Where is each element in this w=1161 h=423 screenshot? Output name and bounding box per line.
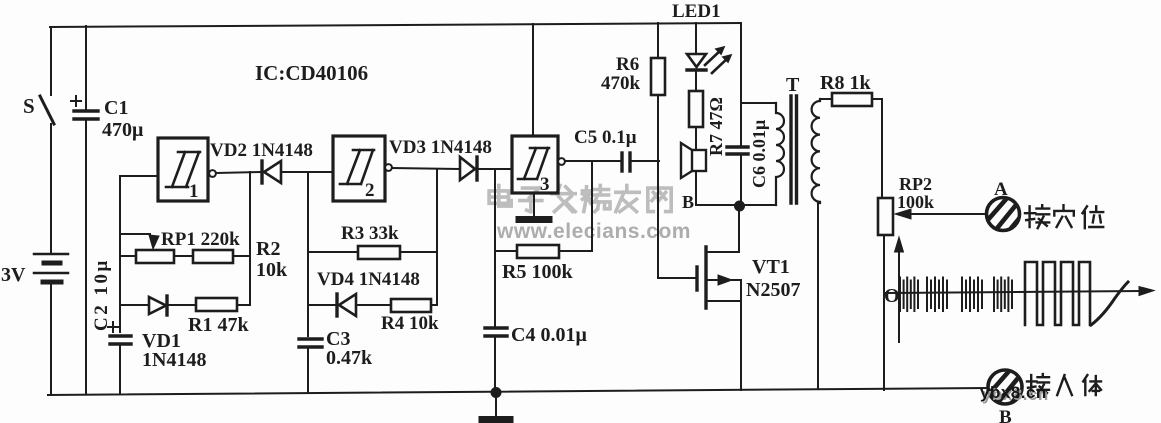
wire RP2 bottom xyxy=(883,235,885,390)
wiper arrow RP2 xyxy=(895,209,911,219)
wire VD1 left xyxy=(120,304,148,306)
wire C1 top xyxy=(85,26,87,109)
svg-text:470k: 470k xyxy=(601,73,641,94)
resistor R1 xyxy=(196,298,237,311)
wire stage2 input vertical xyxy=(307,172,309,336)
label C3 0.47k xyxy=(326,328,373,369)
svg-text:www.elecians.com: www.elecians.com xyxy=(496,220,691,243)
svg-text:10k: 10k xyxy=(256,259,288,281)
resistor R7 xyxy=(689,91,703,127)
diode VD4 xyxy=(337,294,356,316)
wire battery to bottom rail xyxy=(50,283,52,395)
svg-text:ybx8.cn: ybx8.cn xyxy=(980,383,1047,402)
wire inverter2 output xyxy=(392,168,458,169)
diode VD2 xyxy=(262,161,281,183)
wire inverter1 input node xyxy=(120,176,158,332)
transformer T primary xyxy=(776,103,784,205)
svg-text:3: 3 xyxy=(540,174,550,195)
wire inverter3 VDD xyxy=(532,24,534,136)
svg-text:VD4 1N4148: VD4 1N4148 xyxy=(317,269,420,290)
wire R5 left vertical xyxy=(494,169,496,326)
svg-text:470μ: 470μ xyxy=(102,119,144,141)
wire stage2 right vertical xyxy=(436,169,438,305)
resistor R2 xyxy=(193,250,233,263)
wire R5 right vertical xyxy=(591,161,593,251)
wire VD1-R1 xyxy=(169,304,196,306)
label RP2 100k xyxy=(897,174,934,212)
wire R7 to speaker xyxy=(695,127,697,150)
svg-text:C2 10μ: C2 10μ xyxy=(91,258,112,331)
resistor R5 xyxy=(517,245,559,258)
wire R6 to gate xyxy=(658,95,695,278)
speaker B xyxy=(681,143,706,178)
svg-text:0.47k: 0.47k xyxy=(326,347,373,369)
wire secondary top to R8 xyxy=(820,98,832,100)
wire LED to R7 xyxy=(695,72,697,91)
wire C4 bottom xyxy=(494,338,496,392)
wiper arrow RP1 xyxy=(149,235,159,249)
svg-text:1: 1 xyxy=(189,181,199,202)
op-amp U1 inverter 1 xyxy=(158,138,216,202)
svg-text:3V: 3V xyxy=(1,264,26,286)
wire VD4 left xyxy=(308,304,336,306)
capacitor C5 xyxy=(622,153,630,171)
node drain junction xyxy=(734,201,745,212)
svg-text:S: S xyxy=(23,94,35,118)
wire switch to battery xyxy=(50,124,52,252)
wire C3 bottom xyxy=(307,349,309,393)
svg-text:B: B xyxy=(682,192,694,212)
capacitor C1 xyxy=(71,96,98,119)
wire right branch from rail xyxy=(740,23,742,145)
svg-text:R7 47Ω: R7 47Ω xyxy=(706,97,726,156)
LED LED1 xyxy=(687,47,731,73)
potentiometer RP2 xyxy=(878,198,893,235)
wire inverter1 output xyxy=(216,172,260,173)
svg-text:B: B xyxy=(999,407,1012,423)
svg-text:R5 100k: R5 100k xyxy=(502,261,573,283)
watermark 电子发烧友网 xyxy=(489,185,671,211)
wire C1 bottom xyxy=(85,121,87,394)
wire R1 right xyxy=(237,304,250,306)
resistor R6 xyxy=(651,58,665,95)
svg-text:C4 0.01μ: C4 0.01μ xyxy=(511,324,587,346)
wire R6 top xyxy=(657,23,659,58)
diode VD3 xyxy=(460,157,477,180)
svg-text:IC:CD40106: IC:CD40106 xyxy=(255,61,368,85)
wire C5 to R6 node xyxy=(632,160,659,162)
wire switch top xyxy=(50,27,52,95)
resistor R8 xyxy=(832,93,872,106)
op-amp U1 inverter 3 xyxy=(512,136,565,195)
label R6 470k xyxy=(601,54,641,94)
waveform axes xyxy=(884,237,1154,342)
wire top rail xyxy=(50,23,741,27)
wire speaker to drain node xyxy=(696,171,734,205)
label VD1 1N4148 xyxy=(142,330,206,371)
svg-text:T: T xyxy=(786,74,800,96)
svg-text:VD3 1N4148: VD3 1N4148 xyxy=(389,137,492,158)
wire VD4-R4 xyxy=(358,304,391,306)
capacitor C6 xyxy=(727,147,748,154)
svg-text:C5 0.1μ: C5 0.1μ xyxy=(574,127,637,148)
svg-text:R1 47k: R1 47k xyxy=(188,314,249,336)
svg-text:C1: C1 xyxy=(104,97,128,119)
resistor R4 xyxy=(391,299,431,312)
switch S xyxy=(40,96,54,124)
wire primary bottom xyxy=(745,204,776,206)
wire inverter3 output xyxy=(565,160,621,162)
watermark ybx8.cn xyxy=(980,383,1049,404)
transformer T core xyxy=(791,96,797,203)
svg-text:VD2 1N4148: VD2 1N4148 xyxy=(210,140,313,161)
wire C2 bottom xyxy=(119,346,121,394)
wire wiper to electrode A xyxy=(909,213,986,215)
transistor Q1 VT1 xyxy=(697,208,741,390)
svg-text:R2: R2 xyxy=(256,238,280,260)
wire VD3 to inverter3 xyxy=(479,168,512,170)
wire secondary bottom xyxy=(817,203,819,389)
capacitor C2 xyxy=(108,322,131,344)
node ground junction xyxy=(491,387,502,398)
wire VD2 to inverter2 xyxy=(283,171,333,173)
svg-text:O: O xyxy=(884,285,900,307)
op-amp U1 inverter 2 xyxy=(333,136,392,201)
wire C6 bottom xyxy=(740,156,742,202)
wire wiper RP1 xyxy=(120,233,150,235)
wire primary top xyxy=(741,102,776,104)
waveform spike bursts xyxy=(900,278,1012,312)
diode VD1 xyxy=(149,296,167,315)
waveform square wave xyxy=(1025,262,1090,325)
wire row R5 xyxy=(495,250,592,252)
svg-text:2: 2 xyxy=(365,180,375,201)
svg-text:N2507: N2507 xyxy=(746,279,800,301)
wire R8 to RP2 xyxy=(872,99,884,198)
potentiometer RP1 xyxy=(136,250,174,263)
wire row R3 xyxy=(308,251,437,253)
ground xyxy=(482,396,510,420)
transformer T secondary xyxy=(812,99,820,203)
wire bottom rail xyxy=(48,388,988,395)
resistor R3 xyxy=(358,246,400,259)
electrode A xyxy=(986,197,1022,238)
label jie xue wei xyxy=(1025,205,1103,228)
electrode B xyxy=(988,370,1024,411)
ground stub inverter3 xyxy=(519,193,549,220)
label C1 470u xyxy=(102,97,144,141)
svg-text:100k: 100k xyxy=(897,192,934,212)
label VT1 N2507 xyxy=(746,256,800,301)
svg-text:LED1: LED1 xyxy=(672,1,721,22)
svg-text:R8 1k: R8 1k xyxy=(820,72,871,94)
label jie ren ti xyxy=(1027,374,1101,395)
svg-text:VT1: VT1 xyxy=(752,256,790,278)
svg-text:C6 0.01μ: C6 0.01μ xyxy=(749,120,769,188)
svg-text:R4 10k: R4 10k xyxy=(381,313,439,334)
wire R4 right xyxy=(431,304,437,306)
svg-text:R3 33k: R3 33k xyxy=(341,223,399,244)
wire stage1 right vertical xyxy=(249,172,251,305)
wire row1 xyxy=(120,255,250,257)
svg-text:A: A xyxy=(994,179,1008,200)
svg-text:1N4148: 1N4148 xyxy=(142,349,206,371)
wire LED top xyxy=(695,23,697,54)
battery GB 3V xyxy=(34,254,68,282)
waveform diagonal xyxy=(1091,282,1128,325)
label R2 10k xyxy=(256,238,288,281)
capacitor C4 xyxy=(485,328,507,336)
svg-text:RP2: RP2 xyxy=(899,174,932,194)
svg-text:R6: R6 xyxy=(616,54,639,75)
capacitor C3 xyxy=(299,339,322,347)
svg-text:RP1 220k: RP1 220k xyxy=(161,229,240,250)
